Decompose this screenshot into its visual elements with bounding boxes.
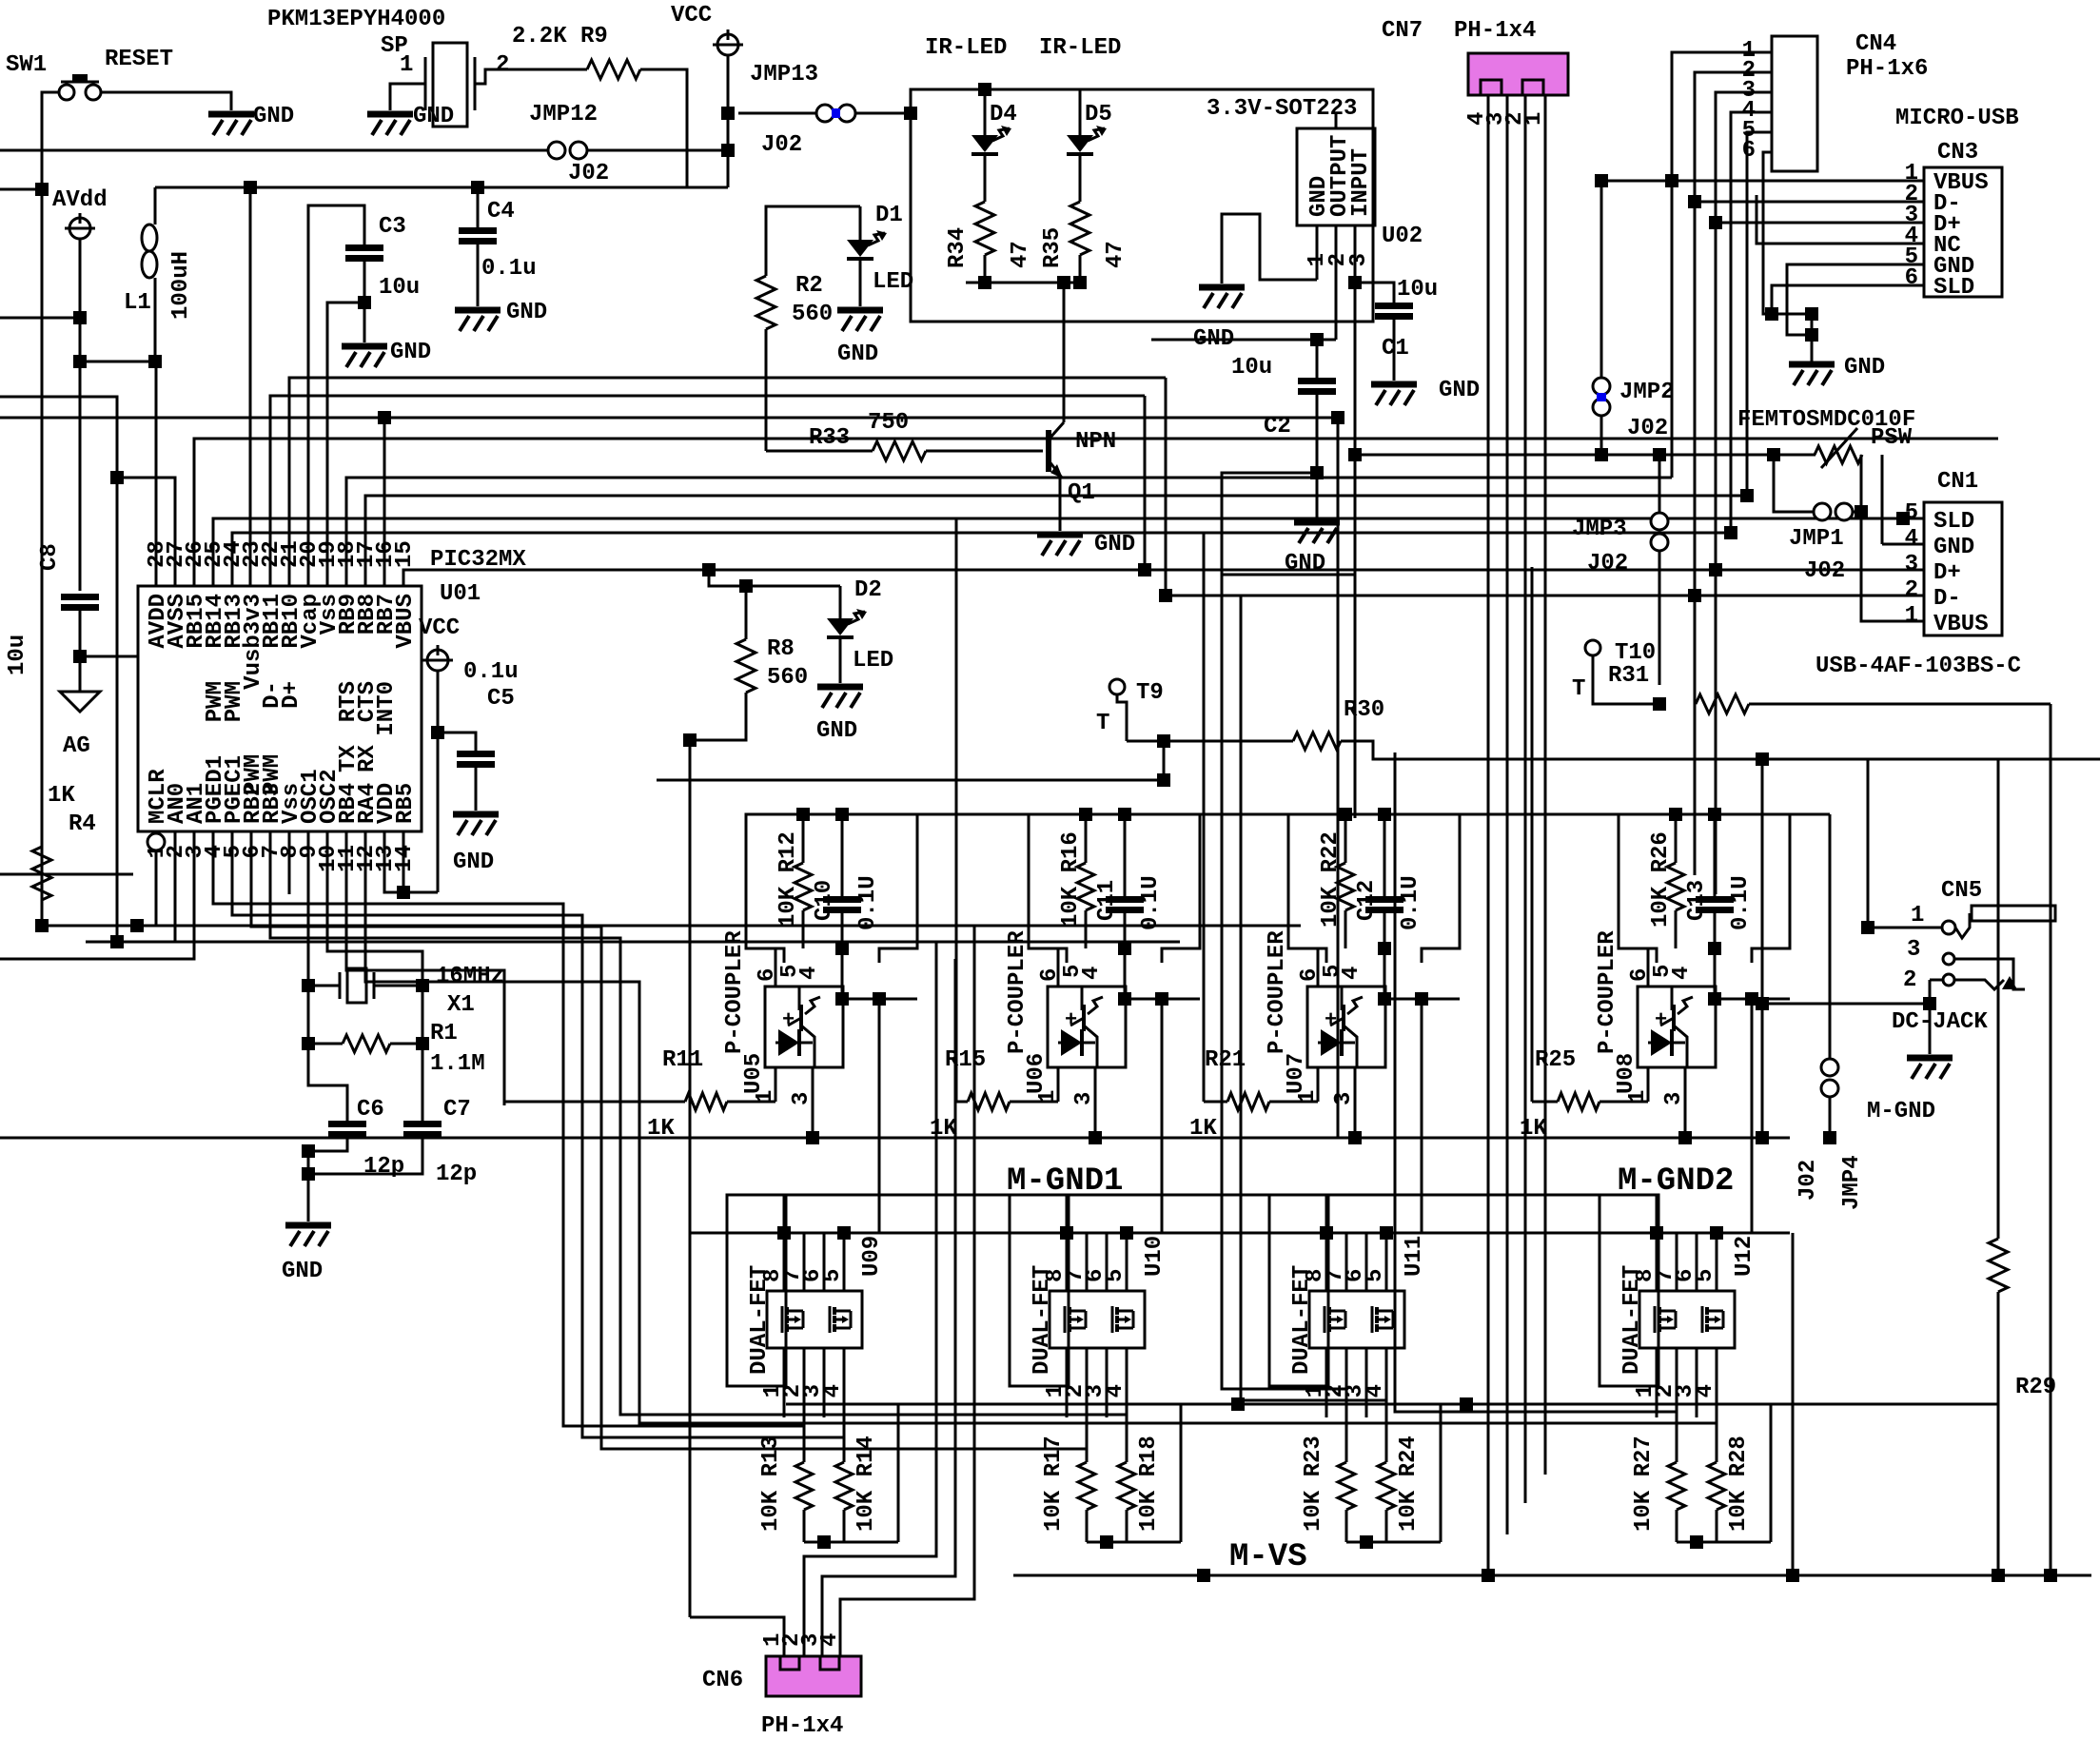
wire [1124,814,1127,899]
led D4 [971,126,1011,154]
opto U05 pin numbers [755,965,822,982]
wire [1929,980,1932,1004]
wire CN7 pin4 line [1544,95,1547,1475]
fet U11 top pin numbers [1303,1269,1388,1282]
node junction [1118,992,1131,1006]
svg-text:10K R22: 10K R22 [1318,831,1344,928]
wire [1345,1510,1348,1542]
ground M-GND label [1867,1099,1935,1124]
svg-text:47: 47 [1103,241,1129,268]
svg-text:C2: C2 [1264,414,1291,440]
node junction [302,1167,315,1181]
led D1 [847,230,887,259]
wire CN7 pin1 line [1487,95,1490,1575]
node junction [1320,1226,1333,1240]
node junction [1653,448,1666,461]
svg-text:GND: GND [1933,535,1974,560]
opto U06 led [1058,1008,1095,1056]
connector CN5 label [1941,878,1982,904]
wire [897,1404,900,1542]
node junction [1896,512,1910,525]
opto U06 phototransistor [1070,987,1103,1067]
resistor R2 [756,276,775,329]
svg-text:J02: J02 [1796,1160,1821,1201]
wire [1716,1510,1718,1542]
opto U05 P-COUPLER label [722,930,748,1054]
node junction [835,808,849,821]
resistor R25 value 1K [1520,1116,1547,1142]
wire pin6 [1647,948,1650,987]
wire [1811,314,1814,361]
connector CN3 pin numbers [1905,161,1918,291]
wire [1881,455,1884,544]
opto U08 P-COUPLER label [1595,930,1620,1054]
opto channel U05 upper box outline [746,814,917,963]
wire [1385,1417,1388,1462]
wire net M-VS [1013,1574,2091,1577]
wire [79,608,82,656]
node junction [1089,1131,1102,1144]
wire [0,188,42,191]
node junction [1805,328,1818,342]
resistor R13 label [758,1436,784,1532]
wire [1316,392,1319,518]
resistor R4 label [69,811,96,837]
svg-text:MICRO-USB: MICRO-USB [1895,106,2019,131]
wire feed ch4 [1531,567,1534,1102]
wire [1770,1404,1773,1542]
svg-text:100uH: 100uH [168,251,194,320]
ground GND label U02 [1193,326,1234,352]
svg-text:PH-1x4: PH-1x4 [1454,18,1536,44]
svg-text:J02: J02 [568,161,609,186]
resistor R14 [835,1462,853,1510]
capacitor C2 label [1264,414,1291,440]
fet U11 DUAL-FET label [1289,1265,1315,1375]
wire pin6 [1317,948,1320,987]
wire gate [601,1389,1087,1449]
wire [839,586,842,618]
connector CN7 type PH-1x4 [1454,18,1536,44]
wire CN4 pin6 [1763,152,1812,314]
wire [1714,910,1717,999]
svg-text:T: T [1096,711,1109,736]
svg-text:CN7: CN7 [1382,18,1423,44]
svg-text:1.1M: 1.1M [430,1051,485,1077]
fuse PSW label [1871,425,1913,451]
capacitor C1 [1375,306,1413,317]
svg-text:RESET: RESET [105,47,173,72]
ground [285,1225,331,1246]
mcu U01 pin2 wire [174,831,177,942]
svg-text:CN4: CN4 [1855,31,1896,57]
opto U06 pin3 number [1071,1092,1097,1105]
switch SW1 label [6,52,47,78]
svg-text:0.1u: 0.1u [481,256,537,282]
fet U12 bottom pin numbers [1633,1384,1718,1397]
wire [1593,655,1659,704]
ground AG label [63,733,90,759]
svg-text:LED: LED [873,269,913,295]
svg-text:10u: 10u [1397,277,1438,303]
wire [745,586,748,639]
wire fet pin lines [1326,1233,1386,1291]
fet U12 DUAL-FET label [1619,1265,1645,1375]
capacitor C12 value 0.1U [1398,875,1423,930]
capacitor C5 [457,754,495,765]
svg-text:C5: C5 [487,686,515,712]
wire [422,986,424,1044]
wire [1354,283,1357,818]
ground AG symbol [60,656,100,712]
node junction [431,726,444,739]
wire [1749,703,2051,706]
resistor R1 label [430,1021,458,1046]
wire [1929,1004,1932,1054]
svg-text:4: 4 [1669,967,1695,980]
svg-text:10K R12: 10K R12 [775,831,801,928]
svg-text:15: 15 [392,540,418,568]
resistor R21 value 1K [1189,1116,1217,1142]
fet U10 mosfet B [1112,1306,1133,1333]
crystal X1 [340,968,374,1003]
svg-text:U11: U11 [1402,1236,1427,1277]
wire vertical [1867,759,1870,928]
wire [41,189,44,926]
svg-text:D5: D5 [1085,102,1112,127]
resistor R22 label [1318,831,1344,928]
fet U10 top pin numbers [1043,1269,1129,1282]
svg-text:GND: GND [390,340,431,365]
wire [841,910,844,999]
svg-text:R15: R15 [945,1047,986,1073]
svg-text:JMP13: JMP13 [750,62,818,88]
opto U05 phototransistor [788,987,820,1067]
node junction [1923,997,1936,1010]
node junction [1756,1131,1769,1144]
ground [1789,364,1835,385]
wire pin1 [1057,1067,1060,1102]
fet U12 mosfet A [1655,1306,1676,1333]
resistor R18 label [1136,1436,1162,1532]
ground GND label Q1 [1094,532,1135,557]
mcu U01 pin14 wire [402,831,405,892]
wire [0,149,548,152]
svg-text:2: 2 [1905,577,1918,603]
net label M-GND2 [1618,1163,1734,1200]
svg-text:+: + [1655,1008,1667,1032]
jumper JMP1 J02 label [1804,558,1845,584]
node junction [130,919,144,932]
mcu U01 pin7 wire [270,831,620,1400]
capacitor C2 value 10u [1231,355,1272,381]
resistor R31 label [1608,663,1649,689]
node junction [1073,276,1087,289]
wire [984,255,987,283]
svg-text:PKM13EPYH4000: PKM13EPYH4000 [267,7,445,32]
svg-text:750: 750 [868,410,909,436]
ground [453,814,499,835]
jumper JMP1 [1814,503,1853,520]
node junction [1756,752,1769,766]
opto U08 phototransistor [1660,987,1693,1067]
opto channel U07 upper box outline [1288,814,1460,963]
svg-text:+: + [1065,1008,1077,1032]
resistor R28 label [1726,1436,1752,1532]
svg-text:10K R28: 10K R28 [1726,1436,1752,1532]
wire gate [563,1366,804,1426]
wire [374,985,422,987]
svg-text:R11: R11 [662,1047,703,1073]
mcu U01 PIC32MX box [138,586,422,831]
connector CN3 label [1937,140,1978,166]
resistor R23 label [1301,1436,1326,1532]
wire CN1 GND [1882,543,1924,546]
wire [1163,741,1166,780]
node junction [2044,1569,2057,1582]
capacitor C3 value 10u [379,275,420,301]
svg-text:C7: C7 [443,1097,471,1123]
resistor R30 label [1344,697,1384,723]
svg-text:12p: 12p [363,1154,404,1180]
wire [438,733,476,753]
node junction [1688,589,1701,602]
wire pin1 [1647,1067,1650,1102]
svg-text:CN1: CN1 [1937,469,1978,495]
resistor R4 1K label [48,783,75,809]
power VCC label [671,3,712,29]
node junction [1678,1131,1692,1144]
svg-text:1K: 1K [48,783,75,809]
net label M-VS [1229,1539,1307,1575]
wire [956,1101,968,1104]
wire [1344,814,1347,863]
connector CN3 box [1924,167,2002,297]
svg-text:10K R16: 10K R16 [1058,831,1084,928]
fuse PSW label FEMTOSMDC010F [1737,407,1915,433]
connector CN4 box [1772,36,1817,171]
svg-text:D1: D1 [875,203,903,228]
node junction [1060,1226,1073,1240]
resistor R11 [685,1093,727,1110]
svg-text:D+: D+ [279,681,304,709]
svg-text:GND: GND [413,104,454,129]
resistor R16 [1077,863,1094,910]
svg-text:GND: GND [1094,532,1135,557]
wire vertical [689,740,692,1617]
jumper JMP13 label [750,62,818,88]
fet U12 refdes [1732,1236,1757,1277]
fet U09 top pin numbers [760,1269,846,1282]
wire CN3 NC [1757,195,1924,244]
fet U10 bottom pin numbers [1043,1384,1129,1397]
wire [1676,1417,1678,1462]
mcu U01 pin16 wire [383,418,386,586]
ground [367,114,413,135]
ground GND label [390,340,431,365]
power AVdd label [52,187,108,213]
svg-text:10K R17: 10K R17 [1041,1436,1067,1532]
svg-text:L1: L1 [124,290,151,316]
resistor R14 label [854,1436,879,1532]
wire [738,112,816,115]
test point T10 label [1615,640,1656,666]
mcu U01 pin24 wire [232,533,1731,586]
wire [1165,378,1168,596]
svg-text:CN6: CN6 [702,1668,743,1693]
svg-text:R8: R8 [767,636,795,662]
wire feed ch2 [955,518,958,1102]
opto U07 pin1 number [1295,1090,1321,1104]
wire [507,68,587,71]
mcu U01 pin20 wire [307,205,310,586]
wire [1440,1404,1443,1542]
fet U11 inner box [1309,1291,1404,1348]
mcu U01 pin27 wire [0,397,175,586]
wire [308,985,340,987]
svg-text:PH-1x4: PH-1x4 [761,1713,843,1734]
svg-text:GND: GND [837,342,878,367]
regulator U02 refdes [1382,224,1423,249]
wire [727,1101,775,1104]
svg-text:0.1U: 0.1U [1138,875,1164,930]
node junction [1482,1569,1495,1582]
svg-text:R29: R29 [2015,1375,2056,1400]
fet U10 mosfet A [1065,1306,1086,1333]
wire rail [1200,813,1288,816]
wire [477,242,480,306]
opto U05 pin3 number [789,1092,814,1105]
fet U09 refdes [859,1236,885,1277]
svg-text:GND: GND [253,104,294,129]
wire [1063,283,1066,422]
capacitor C11 label [1094,880,1120,921]
wire [1222,473,1355,575]
capacitor C6 [328,1124,366,1135]
mcu U01 pin21 wire [289,378,1166,586]
node junction [1708,942,1721,955]
wire [1676,1510,1678,1542]
capacitor C13 value 0.1U [1728,875,1754,930]
opto U08 box [1638,987,1716,1067]
node junction [471,181,484,194]
wire bus [0,396,117,399]
capacitor C7 value 12p [436,1162,477,1187]
fet U09 mosfet B [830,1306,851,1333]
connector CN5 jack [1942,906,2055,989]
node junction [1690,1535,1703,1549]
svg-text:560: 560 [767,665,808,691]
svg-text:GND: GND [1844,355,1885,381]
wire rail [917,813,1029,816]
resistor R21 label [1205,1047,1246,1073]
opto U08 pin numbers [1627,965,1695,982]
wire [859,261,862,306]
svg-text:U05: U05 [741,1053,767,1094]
wire gate [1222,575,1346,1389]
piezo SP pin 1 [400,52,413,78]
wire [1151,339,1336,342]
svg-text:AG: AG [63,733,90,759]
crystal X1 label 16MHz [436,964,504,989]
ground GND label U01 [453,850,494,875]
led D5 label [1085,102,1112,127]
svg-text:PH-1x6: PH-1x6 [1846,56,1928,82]
node junction [73,311,87,324]
piezo speaker SP [425,43,475,127]
capacitor C4 label [487,199,515,225]
svg-text:INPUT: INPUT [1348,148,1374,217]
mcu U01 pin22 wire [270,396,1145,586]
svg-text:C8: C8 [37,543,63,571]
mcu U01 pin17 wire [365,496,1747,586]
node junction [1378,808,1391,821]
jumper JMP2 J02 label [1627,416,1668,441]
svg-text:10K R13: 10K R13 [758,1436,784,1532]
wire [859,206,862,240]
svg-text:AVdd: AVdd [52,187,108,213]
ground GND label [253,104,294,129]
capacitor C1 label [1382,336,1409,361]
wire CN1 VBUS [1861,455,1924,621]
node junction [1669,808,1682,821]
wire [1762,1003,1930,1006]
ground [208,114,254,135]
node junction [244,181,257,194]
resistor R8 label [767,636,795,662]
node junction [1765,307,1778,321]
wire [1010,1101,1058,1104]
node junction [1138,563,1151,576]
regulator U02 label 3.3V-SOT223 [1207,96,1357,122]
node junction [873,992,886,1006]
wire [1355,283,1394,305]
resistor R15 value 1K [930,1116,957,1142]
node junction [683,733,697,747]
ground GND label C1 [1439,378,1480,403]
svg-text:R1: R1 [430,1021,458,1046]
wire [1384,998,1460,1001]
jumper JMP2 label [1619,380,1675,405]
node junction [1786,1569,1799,1582]
mcu U01 pin3 wire [0,831,194,959]
node junction [1331,411,1344,424]
wire [804,1541,898,1544]
svg-text:3: 3 [1071,1092,1097,1105]
wire pin6 [775,948,777,987]
mcu U01 pin12 wire [365,831,639,1412]
wire [841,814,844,899]
wire [783,1195,786,1233]
capacitor C5 value 0.1u [463,659,519,685]
transistor Q1 label [1068,480,1095,506]
power VCC symbol [713,29,743,55]
wire [116,478,119,942]
svg-text:INT0: INT0 [374,681,400,736]
svg-text:R33: R33 [809,425,850,451]
resistor R8 [736,639,756,693]
capacitor C11 [1106,900,1144,910]
node junction [1378,942,1391,955]
node junction [1823,1131,1836,1144]
svg-text:R31: R31 [1608,663,1649,689]
svg-text:CN3: CN3 [1937,140,1978,166]
mcu U01 pin10 wire OSC2 [327,831,422,986]
wire [926,450,1043,453]
node junction [721,144,735,157]
wire CN6 pin1 [690,1617,784,1656]
wire [1421,999,1423,1233]
